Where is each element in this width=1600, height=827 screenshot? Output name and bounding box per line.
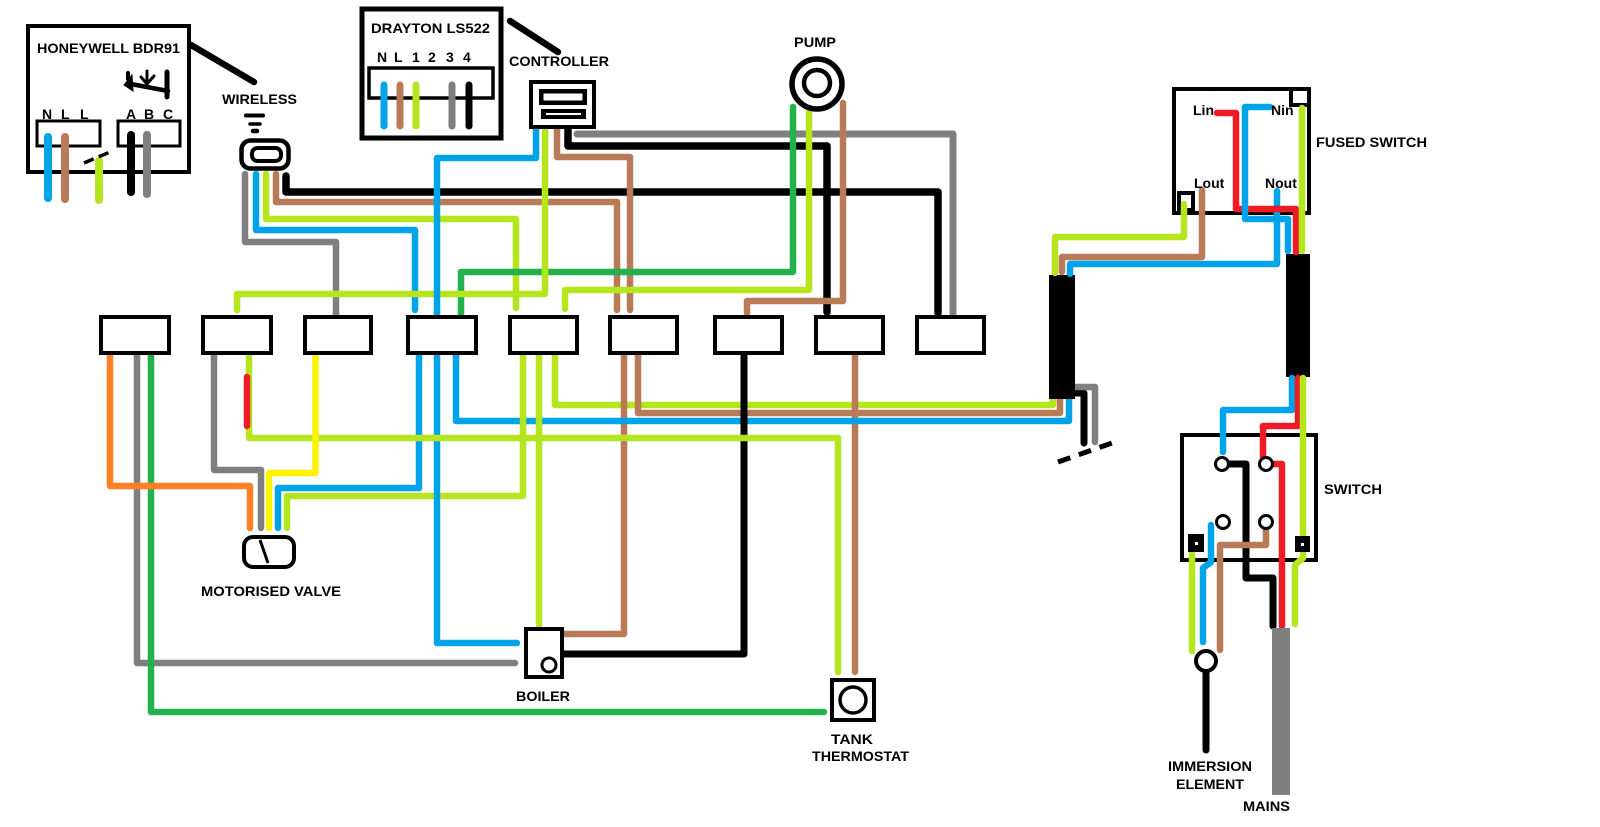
wire box2 gray to valve: [214, 352, 261, 528]
terminal strip box 8: [816, 317, 883, 353]
svg-text:Nin: Nin: [1271, 102, 1294, 118]
drayton wire 3 gray: [449, 85, 456, 126]
svg-text:Lout: Lout: [1194, 175, 1225, 191]
switch box: [1182, 435, 1316, 560]
tank thermostat circle: [840, 687, 866, 713]
terminal strip box 3: [305, 317, 371, 353]
wire red segment at box2: [244, 377, 251, 426]
svg-text:A: A: [126, 106, 136, 122]
wire cable A blue to fused switch Nout: [1070, 191, 1277, 274]
motorised valve symbol: [244, 537, 294, 567]
honeywell N L L terminal box: [37, 121, 100, 146]
wire fused switch Nin blue: [1245, 107, 1288, 251]
wire pump lime to box5: [565, 111, 809, 309]
wireless receiver body: [242, 116, 289, 169]
wire lime box2 to tank thermostat: [249, 352, 838, 672]
wire cable B red to switch: [1263, 378, 1298, 457]
svg-text:IMMERSION: IMMERSION: [1168, 758, 1252, 774]
svg-text:N: N: [377, 49, 387, 65]
wire fused switch Lin red: [1217, 113, 1296, 252]
switch terminal circle BR: [1260, 516, 1273, 529]
wire cable B blue to switch: [1223, 378, 1292, 452]
terminal strip box 4: [408, 317, 476, 353]
wire box8 brown to tank thermostat: [852, 352, 859, 672]
switch terminal circle TR: [1260, 458, 1273, 471]
wire cable B lime down right side of switch: [1295, 378, 1303, 624]
wire box7 black to boiler: [565, 352, 744, 654]
svg-text:ELEMENT: ELEMENT: [1176, 776, 1244, 792]
wire wireless black to box9: [286, 176, 938, 313]
svg-text:BOILER: BOILER: [516, 688, 570, 704]
honeywell wire B gray: [143, 135, 151, 194]
terminal strip box 1: [101, 317, 169, 353]
honeywell dashed link: [84, 152, 110, 163]
wire box6 brown to cable A: [638, 352, 1060, 413]
drayton terminal box: [369, 68, 493, 98]
drayton LS522 box: [362, 9, 501, 138]
svg-text:TANK: TANK: [831, 731, 873, 747]
wire box3 yellow to valve: [269, 352, 316, 528]
terminal strip box 7: [715, 317, 782, 353]
fused switch corner notch top right: [1291, 89, 1309, 105]
cable A black core stub: [1072, 393, 1084, 443]
wire box1 gray to boiler: [137, 352, 515, 663]
controller symbol: [531, 82, 594, 127]
svg-text:CONTROLLER: CONTROLLER: [509, 53, 609, 69]
switch wire brown to immersion: [1220, 528, 1266, 650]
wire box6 brown to boiler: [563, 352, 624, 634]
svg-text:THERMOSTAT: THERMOSTAT: [812, 748, 909, 764]
honeywell A B C terminal box: [118, 121, 180, 146]
cable sheath B (right black bar): [1286, 254, 1310, 377]
cable A gray core stub: [1072, 387, 1095, 442]
terminal strip box 6: [610, 317, 677, 353]
svg-text:L: L: [80, 106, 89, 122]
mains cable gray: [1272, 628, 1290, 795]
cable A cut dashes: [1058, 443, 1112, 462]
drayton wire L brown: [397, 85, 404, 126]
tank thermostat box: [832, 680, 874, 720]
wire box5 lime to cable A: [555, 352, 1053, 405]
terminal strip box 5: [510, 317, 577, 353]
honeywell wire A black: [127, 135, 135, 192]
svg-text:PUMP: PUMP: [794, 34, 836, 50]
svg-text:FUSED SWITCH: FUSED SWITCH: [1316, 134, 1427, 150]
svg-text:DRAYTON LS522: DRAYTON LS522: [371, 20, 490, 36]
switch wire red to mains: [1271, 464, 1282, 626]
switch wire lime left to immersion: [1189, 553, 1196, 651]
wire box5 lime to valve: [287, 352, 523, 528]
boiler box: [526, 629, 562, 677]
svg-text:HONEYWELL BDR91: HONEYWELL BDR91: [37, 40, 180, 56]
svg-text:Lin: Lin: [1193, 102, 1214, 118]
wire box4 blue to valve: [278, 352, 419, 528]
drayton wire N blue: [381, 85, 388, 126]
wire cable A brown to fused switch: [1062, 190, 1202, 272]
honeywell wire L brown: [61, 137, 69, 199]
wire pump brown to box7: [747, 103, 843, 313]
wire controller black to box8: [568, 128, 827, 312]
svg-text:MOTORISED VALVE: MOTORISED VALVE: [201, 583, 341, 599]
svg-text:Nout: Nout: [1265, 175, 1297, 191]
terminal strip box 9: [917, 317, 984, 353]
wire box5 lime to boiler top: [536, 352, 543, 625]
wireless antenna marks: [246, 114, 263, 118]
svg-text:L: L: [61, 106, 70, 122]
wire wireless brown to box6: [276, 174, 617, 310]
wire controller gray to box9: [577, 134, 953, 313]
switch terminal circle BL: [1217, 516, 1230, 529]
switch terminal circle TL: [1216, 458, 1229, 471]
wire box1 green to tank thermostat: [151, 352, 824, 712]
svg-text:C: C: [163, 106, 173, 122]
fused switch corner notch bottom left: [1179, 193, 1193, 210]
switch wire black to mains: [1228, 464, 1273, 626]
svg-text:WIRELESS: WIRELESS: [222, 91, 297, 107]
svg-text:1: 1: [412, 49, 420, 65]
pointer honeywell to wireless: [191, 45, 254, 82]
wire wireless gray to box3: [245, 174, 336, 315]
wire pump green to box4: [461, 107, 793, 314]
wire controller lime to box2: [237, 128, 545, 310]
pump symbol: [792, 59, 842, 109]
wire box4 blue to cable A: [456, 352, 1069, 421]
fused switch box: [1174, 89, 1309, 213]
switch clamp square right: [1295, 536, 1310, 552]
honeywell wire lime: [95, 161, 103, 200]
svg-text:SWITCH: SWITCH: [1324, 481, 1382, 497]
honeywell relay switch symbol: [131, 84, 168, 91]
switch wire blue to immersion: [1203, 525, 1211, 642]
switch clamp square left: [1188, 534, 1204, 552]
wire fused switch lime right side: [1299, 108, 1306, 251]
wire wireless lime to box5: [266, 174, 516, 308]
immersion element symbol: [1196, 651, 1216, 671]
svg-text:MAINS: MAINS: [1243, 798, 1290, 814]
drayton wire 4 black: [466, 85, 473, 126]
terminal strip box 2: [203, 317, 271, 353]
wire wireless blue to box4: [256, 174, 415, 310]
pointer drayton to controller: [510, 21, 558, 52]
wire controller brown to box6: [557, 129, 630, 310]
svg-text:L: L: [394, 49, 403, 65]
cable sheath A (left black bar): [1049, 275, 1075, 399]
honeywell BDR91 box: [28, 26, 189, 172]
drayton wire 1 lime: [413, 85, 420, 126]
wire controller blue N through box4 to boiler: [437, 128, 536, 643]
wire cable A lime to fused switch Lout: [1055, 204, 1184, 273]
wire box1 orange to valve: [110, 352, 250, 528]
honeywell wire N blue: [44, 137, 52, 198]
svg-text:B: B: [144, 106, 154, 122]
svg-text:4: 4: [463, 49, 471, 65]
svg-text:N: N: [42, 106, 52, 122]
svg-text:2: 2: [428, 49, 436, 65]
boiler circle: [542, 658, 556, 672]
svg-text:3: 3: [446, 49, 454, 65]
